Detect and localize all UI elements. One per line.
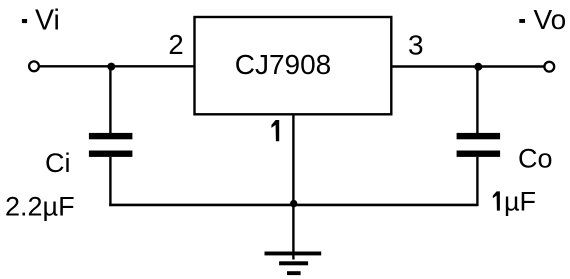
wire: regulator pin 3 to output terminal: [391, 65, 544, 67]
wire: input node down to capacitor Ci: [109, 66, 111, 133]
svg-text:Vo: Vo: [534, 4, 567, 35]
capacitor Ci plates: [89, 133, 132, 157]
input terminal (open circle): [29, 61, 39, 71]
pin label 1: [271, 120, 279, 141]
wire: capacitor Co to bottom rail: [476, 157, 478, 206]
capacitor Co plates: [457, 133, 501, 157]
svg-text:Ci: Ci: [45, 148, 71, 178]
output terminal (open circle): [544, 62, 554, 72]
wire: regulator pin 1 down to ground: [292, 115, 294, 260]
node: input junction dot: [107, 63, 115, 71]
svg-text:3: 3: [408, 30, 424, 61]
svg-text:2.2µF: 2.2µF: [5, 192, 75, 222]
svg-text:Vi: Vi: [35, 5, 60, 37]
wire: capacitor Ci to bottom rail: [109, 157, 111, 206]
node: ground junction dot: [290, 200, 297, 207]
svg-text:µF: µF: [504, 186, 536, 216]
label -Vi (negative input voltage): [22, 5, 60, 37]
node: output junction dot: [474, 63, 482, 71]
wire: bottom rail: [109, 204, 477, 207]
svg-text:2: 2: [168, 29, 183, 60]
ground symbol: [265, 252, 322, 276]
label 1uF: [493, 191, 500, 210]
regulator U1 box CJ7908: [195, 17, 392, 114]
svg-text:CJ7908: CJ7908: [235, 49, 332, 80]
label -Vo (negative output voltage): [519, 4, 566, 35]
wire: output node down to capacitor Co: [476, 67, 478, 134]
wire: input terminal to regulator pin 2: [40, 65, 195, 67]
svg-text:Co: Co: [518, 144, 553, 174]
